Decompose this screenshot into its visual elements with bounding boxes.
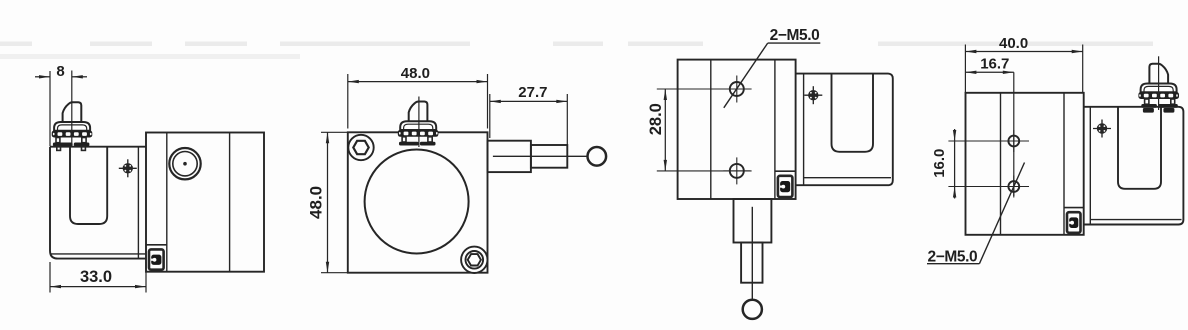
- view 4: connector detail box: [1064, 207, 1084, 209]
- view 3: position crosshair: [804, 94, 822, 96]
- view 4: housing strip line: [1089, 107, 1091, 225]
- view 1: gland center line: [71, 71, 73, 147]
- view 4: M5 hole bottom: [1003, 186, 1025, 188]
- view 1: body inner line (right): [229, 133, 231, 272]
- view 4: U-slot in housing: [1118, 107, 1161, 189]
- faint scan artifact band: [0, 42, 32, 47]
- view 3: M5 hole top: [723, 88, 750, 90]
- view 1: connector detail box: [146, 244, 167, 246]
- dimension 33.0 (view 1): [49, 262, 51, 293]
- view 3: connector detail box: [775, 170, 796, 172]
- dimension 40.0 (view 4): [964, 45, 966, 93]
- view 1: block inner edge line: [137, 147, 139, 259]
- view 1: block bottom inner line: [51, 253, 146, 255]
- view 2: hex bolt bottom-right: [461, 247, 487, 273]
- svg-text:48.0: 48.0: [401, 65, 430, 82]
- view 3: housing bottom inner line: [804, 177, 891, 179]
- view 2: wire center line: [493, 155, 588, 157]
- view 3: housing strip line: [803, 74, 805, 186]
- view 3: wire outlet tube (narrow): [741, 243, 762, 283]
- view 3: wire center line: [751, 207, 753, 300]
- dimension 8 (view 1): [49, 71, 51, 146]
- view 4: mounting plate rect: [966, 93, 1084, 235]
- view 4: M5 hole top: [1003, 140, 1025, 142]
- view 2: gland center line: [418, 97, 420, 148]
- view 3: wire outlet tube (wide): [734, 199, 772, 243]
- view 3: plate inner line right: [774, 60, 776, 199]
- view 3: plate inner line left: [710, 60, 712, 199]
- dimension 48.0 top (view 2): [347, 74, 349, 129]
- view 2: hex bolt top-left: [348, 135, 373, 160]
- dimension 16.7 (view 4): [965, 71, 1013, 73]
- view 4: holes center line: [1013, 72, 1015, 196]
- svg-text:8: 8: [56, 63, 64, 80]
- view 2: cable outlet tube (wide): [488, 141, 531, 172]
- view 4: gland center line: [1158, 56, 1160, 110]
- view 1: position crosshair on block: [119, 167, 137, 169]
- view 3: mounting plate rect: [678, 60, 796, 199]
- svg-text:48.0: 48.0: [307, 186, 326, 219]
- view 2: front square body: [348, 132, 488, 272]
- view 4: position crosshair: [1093, 128, 1111, 130]
- view 2: cable outlet tube (narrow): [531, 145, 567, 168]
- view 4: plate inner line right: [1063, 93, 1065, 235]
- svg-text:33.0: 33.0: [80, 268, 112, 286]
- view 3: housing (top view): [796, 74, 893, 186]
- svg-text:27.7: 27.7: [518, 84, 547, 101]
- view 4: housing outline: [1084, 107, 1184, 225]
- view 1: U-slot in block: [70, 147, 107, 224]
- view 2: drum circle: [365, 150, 469, 254]
- view 3: U-slot in housing: [832, 74, 874, 152]
- svg-text:28.0: 28.0: [647, 103, 665, 135]
- view 1: shaft circle: [169, 148, 200, 179]
- svg-text:2−M5.0: 2−M5.0: [928, 248, 978, 265]
- dimension 16.0 (view 4): [948, 140, 1029, 142]
- svg-text:40.0: 40.0: [999, 35, 1028, 52]
- view 3: wire eyelet ring: [743, 300, 762, 319]
- svg-text:16.7: 16.7: [980, 56, 1009, 73]
- svg-text:16.0: 16.0: [931, 149, 948, 178]
- dimension 28.0 (view 3): [657, 88, 752, 90]
- view 4: cable gland (mirrored): [1138, 64, 1179, 113]
- svg-text:2−M5.0: 2−M5.0: [770, 27, 820, 44]
- dimension 48.0 left (view 2): [321, 131, 348, 133]
- view 2: wire eyelet ring: [588, 147, 607, 166]
- view 2: cable gland: [398, 102, 439, 146]
- view 1: body inner line (left strip): [166, 133, 168, 272]
- view 1: cable gland: [52, 102, 93, 150]
- view 4: plate inner line left: [1000, 93, 1002, 235]
- view 1: main housing body: [146, 133, 264, 272]
- view 3: M5 hole bottom: [723, 170, 750, 172]
- view 4: housing bottom inner line: [1090, 219, 1181, 221]
- view 1: sensor head block outline: [50, 147, 146, 259]
- dimension 27.7 (view 2): [489, 94, 491, 138]
